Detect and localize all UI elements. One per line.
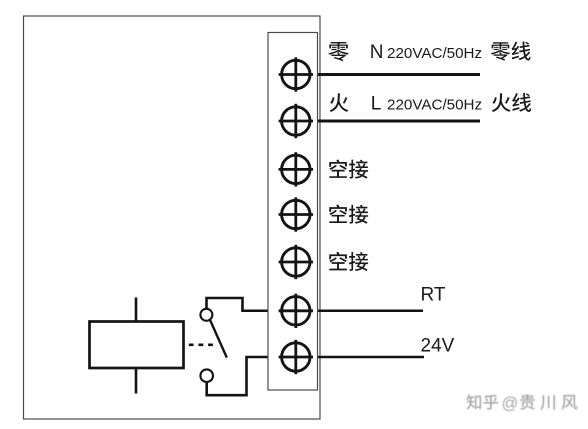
relay coil K1	[90, 322, 184, 369]
svg-text:24V: 24V	[421, 336, 455, 357]
switch contact bottom	[200, 369, 213, 382]
wire from switch bottom contact to 24V terminal	[207, 357, 247, 395]
screw terminal 3 unconnected	[279, 152, 313, 186]
label 空接 (unconnected) row 3	[329, 252, 347, 270]
wire neutral N	[296, 73, 480, 76]
label 空接 (unconnected) row 1	[329, 159, 347, 177]
svg-text:@: @	[502, 394, 519, 412]
svg-text:RT: RT	[421, 284, 446, 305]
svg-text:N: N	[370, 42, 384, 63]
label 火 (live)	[330, 93, 349, 112]
screw terminal 6 RT	[279, 294, 313, 328]
wire 24V	[245, 356, 424, 359]
wire RT	[241, 310, 423, 313]
mechanical linkage (dashed) between coil and switch	[189, 343, 213, 346]
watermark 知乎 @贵川风	[466, 394, 577, 412]
screw terminal 7 24V	[279, 340, 313, 374]
screw terminal 2 L/live	[279, 104, 313, 138]
switch contact top	[200, 309, 212, 321]
svg-text:220VAC/50Hz: 220VAC/50Hz	[387, 45, 482, 62]
svg-text:220VAC/50Hz: 220VAC/50Hz	[387, 97, 482, 114]
label 零 (neutral)	[328, 42, 348, 61]
label 零线 (neutral wire)	[491, 42, 510, 60]
wire live L	[296, 120, 480, 123]
switch blade	[210, 320, 227, 358]
screw terminal 4 unconnected	[279, 197, 313, 231]
wire from switch top contact to RT terminal	[207, 298, 243, 311]
screw terminal 1 N/neutral	[279, 57, 313, 91]
enclosure (device outline)	[24, 16, 321, 419]
relay coil lead top	[135, 298, 138, 322]
terminal block	[268, 33, 318, 391]
screw terminal 5 unconnected	[279, 245, 313, 279]
label 火线 (live wire)	[492, 93, 511, 112]
relay coil lead bottom	[135, 368, 138, 394]
label 空接 (unconnected) row 2	[329, 205, 347, 223]
svg-text:L: L	[371, 94, 382, 115]
